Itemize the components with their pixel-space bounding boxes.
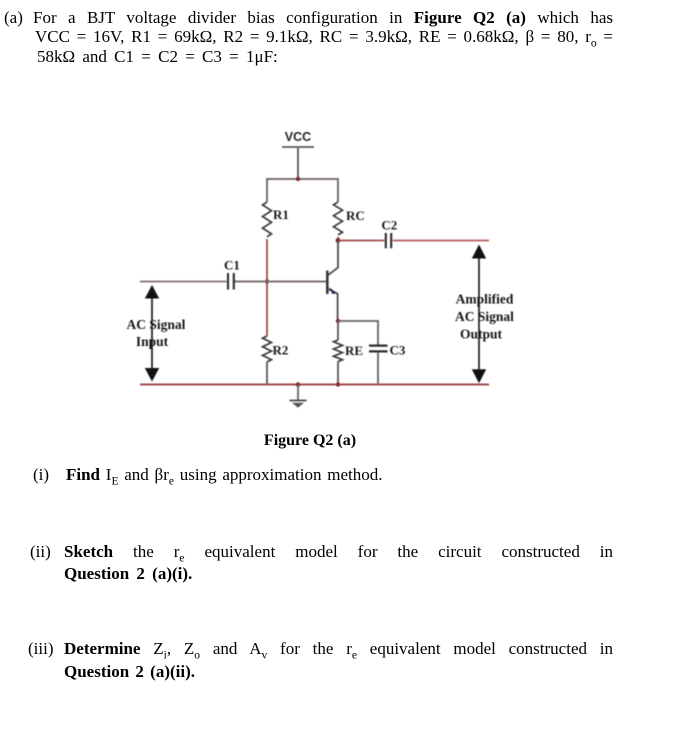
paragraph (a) line 3 (37, 47, 278, 67)
wire RE bottom (337, 362, 339, 385)
node emitter junction (336, 319, 340, 323)
wire input (left of C1) (140, 281, 227, 283)
wire RC bottom to collector node (337, 237, 339, 241)
svg-text:RC: RC (346, 208, 365, 223)
svg-text:VCC: VCC (285, 130, 311, 144)
wire C3 branch top (338, 321, 378, 345)
wire C3 branch bottom (377, 352, 379, 384)
svg-text:C2: C2 (381, 217, 397, 232)
transistor Q1 collector lead (328, 241, 338, 276)
svg-text:Output: Output (460, 326, 503, 341)
arrow output double-headed (478, 257, 480, 371)
svg-text:R2: R2 (273, 343, 289, 358)
item (iii) (28, 639, 54, 659)
wire output right segment (393, 240, 489, 242)
wire output left segment (338, 240, 384, 242)
transistor Q1 emitter arrowhead (329, 287, 336, 294)
svg-text:R1: R1 (273, 207, 289, 222)
transistor Q1 base bar (326, 271, 329, 294)
caption Figure Q2 (a) (0, 431, 620, 451)
item (i) (33, 465, 49, 485)
node ground junction (296, 382, 301, 387)
wire R1 bottom to R2 top (red) (266, 239, 268, 336)
wire bottom rail (140, 384, 489, 386)
ground (297, 385, 299, 401)
capacitor C3 (369, 346, 388, 352)
wire emitter to RE (337, 321, 339, 340)
node top rail junction (296, 177, 300, 181)
resistor RC (334, 202, 343, 235)
svg-text:RE: RE (345, 343, 363, 358)
resistor R1 (263, 202, 272, 237)
node RE bottom junction (336, 382, 340, 386)
resistor RE (334, 340, 343, 362)
wire VCC stem (297, 147, 299, 179)
wire base (235, 281, 327, 283)
resistor R2 (263, 336, 272, 362)
capacitor C1 (228, 273, 234, 290)
svg-text:C3: C3 (390, 343, 406, 358)
paragraph (a) line 2 (35, 27, 613, 47)
arrow input double-headed (151, 296, 153, 370)
node base junction (265, 279, 269, 283)
svg-text:AC Signal: AC Signal (455, 309, 514, 324)
svg-text:C1: C1 (224, 257, 240, 272)
svg-text:AC Signal: AC Signal (127, 317, 186, 332)
svg-text:Amplified: Amplified (456, 291, 514, 306)
svg-text:Input: Input (136, 334, 169, 349)
VCC bar (282, 146, 314, 148)
transistor Q1 emitter lead (328, 289, 338, 321)
node collector junction (336, 238, 341, 243)
paragraph (a) line 1 (4, 8, 23, 28)
wire top rail (267, 179, 338, 202)
item (ii) (30, 542, 51, 562)
wire R2 bottom (266, 362, 268, 385)
capacitor C2 (386, 233, 391, 248)
